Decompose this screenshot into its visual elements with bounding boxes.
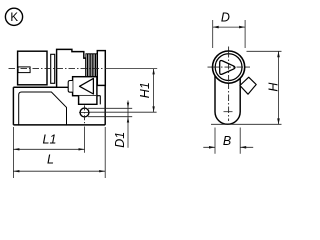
svg-text:L1: L1	[43, 133, 57, 147]
svg-text:L: L	[47, 153, 54, 167]
svg-text:B: B	[223, 134, 231, 148]
svg-text:H1: H1	[138, 82, 152, 98]
svg-text:H: H	[267, 82, 281, 92]
svg-text:K: K	[10, 12, 18, 24]
svg-text:D: D	[221, 10, 230, 24]
svg-text:D1: D1	[113, 132, 127, 148]
